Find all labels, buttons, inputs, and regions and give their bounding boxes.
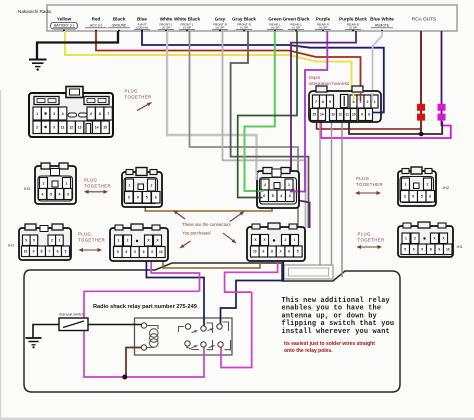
svg-text:10: 10: [159, 250, 163, 254]
svg-text:GROUND: GROUND: [112, 24, 127, 28]
svg-text:5: 5: [65, 249, 67, 253]
svg-text:11: 11: [346, 113, 350, 117]
svg-text:7: 7: [107, 112, 109, 116]
svg-text:Green Black: Green Black: [283, 17, 310, 22]
svg-text:2: 2: [285, 238, 287, 242]
svg-text:IH1: IH1: [457, 244, 464, 249]
svg-text:2: 2: [151, 183, 153, 187]
svg-text:TOGETHER: TOGETHER: [84, 184, 111, 189]
svg-text:5: 5: [146, 196, 148, 200]
svg-text:3: 3: [67, 192, 69, 196]
svg-text:You purchased: You purchased: [182, 231, 211, 236]
svg-text:(+) SP: (+) SP: [271, 26, 280, 30]
svg-text:3: 3: [404, 195, 406, 199]
svg-text:12: 12: [338, 113, 342, 117]
svg-text:onto the relay poles.: onto the relay poles.: [284, 348, 333, 354]
svg-text:PLUG: PLUG: [356, 176, 370, 181]
svg-text:10: 10: [24, 249, 28, 253]
svg-text:IH2: IH2: [24, 186, 31, 191]
svg-text:REMOTE: REMOTE: [375, 24, 390, 28]
svg-text:9: 9: [438, 247, 440, 251]
svg-text:5: 5: [421, 195, 423, 199]
svg-text:(-) SP: (-) SP: [349, 26, 357, 30]
svg-text:Green: Green: [268, 17, 281, 22]
svg-text:3: 3: [128, 196, 130, 200]
svg-text:White Black: White Black: [174, 17, 200, 22]
svg-text:14: 14: [320, 113, 324, 117]
svg-text:8: 8: [99, 112, 101, 116]
svg-text:8: 8: [368, 113, 370, 117]
svg-text:6: 6: [126, 250, 128, 254]
svg-text:Blue: Blue: [137, 17, 147, 22]
svg-text:15: 15: [312, 113, 316, 117]
svg-text:RCA OUTS: RCA OUTS: [412, 17, 437, 23]
svg-text:4: 4: [59, 192, 61, 196]
svg-text:Red: Red: [92, 17, 101, 22]
svg-text:5: 5: [404, 247, 406, 251]
svg-text:1: 1: [129, 183, 131, 187]
svg-text:10: 10: [352, 113, 356, 117]
svg-text:PLUG: PLUG: [84, 178, 98, 183]
svg-text:1: 1: [294, 238, 296, 242]
svg-text:PLUG: PLUG: [78, 232, 92, 237]
svg-text:6: 6: [429, 195, 431, 199]
svg-text:5: 5: [329, 100, 331, 104]
svg-text:6: 6: [42, 192, 44, 196]
svg-text:5: 5: [117, 250, 119, 254]
svg-text:9: 9: [33, 249, 35, 253]
svg-text:10: 10: [253, 250, 257, 254]
svg-text:PLUG: PLUG: [125, 89, 139, 94]
svg-text:2: 2: [36, 126, 38, 130]
svg-text:1: 1: [288, 183, 290, 187]
svg-text:IH2: IH2: [443, 185, 450, 190]
svg-text:TOGETHER: TOGETHER: [125, 95, 152, 100]
svg-text:(+) SP: (+) SP: [162, 26, 171, 30]
svg-text:8: 8: [41, 249, 43, 253]
svg-text:(+) SP: (+) SP: [216, 26, 225, 30]
svg-text:ACC (+): ACC (+): [90, 24, 102, 28]
svg-text:Purple: Purple: [316, 17, 331, 22]
svg-text:1: 1: [66, 181, 68, 185]
svg-text:13: 13: [331, 113, 335, 117]
svg-text:integration harness: integration harness: [309, 81, 350, 87]
svg-text:2: 2: [43, 181, 45, 185]
svg-text:Yellow: Yellow: [57, 17, 72, 22]
svg-text:2: 2: [367, 100, 369, 104]
svg-text:3: 3: [53, 112, 55, 116]
svg-text:6: 6: [288, 250, 290, 254]
svg-text:13: 13: [78, 126, 82, 130]
svg-text:9: 9: [361, 113, 363, 117]
svg-text:BATTERY (+): BATTERY (+): [54, 24, 74, 28]
svg-text:1: 1: [36, 112, 38, 116]
svg-text:4: 4: [280, 194, 282, 198]
svg-text:manual switch: manual switch: [59, 311, 84, 316]
svg-text:5: 5: [297, 250, 299, 254]
svg-text:6: 6: [322, 100, 324, 104]
svg-text:Black: Black: [113, 17, 126, 22]
svg-text:IH1: IH1: [8, 243, 15, 248]
svg-text:8: 8: [143, 250, 145, 254]
svg-text:TOGETHER: TOGETHER: [78, 238, 105, 243]
svg-text:TOGETHER: TOGETHER: [356, 182, 383, 187]
svg-text:15: 15: [103, 126, 107, 130]
svg-text:6: 6: [155, 196, 157, 200]
svg-text:Gray: Gray: [215, 17, 226, 22]
svg-text:7: 7: [49, 249, 51, 253]
svg-text:7: 7: [315, 100, 317, 104]
svg-text:3: 3: [289, 194, 291, 198]
svg-text:1: 1: [58, 239, 60, 243]
svg-text:10: 10: [446, 247, 450, 251]
svg-text:14: 14: [95, 126, 99, 130]
svg-text:PLUG: PLUG: [358, 232, 372, 237]
svg-text:6: 6: [263, 194, 265, 198]
svg-text:1: 1: [405, 182, 407, 186]
svg-text:White: White: [160, 17, 173, 22]
svg-text:TOGETHER: TOGETHER: [358, 238, 385, 243]
svg-text:2: 2: [127, 239, 129, 243]
svg-text:6: 6: [90, 112, 92, 116]
svg-text:8: 8: [271, 250, 273, 254]
svg-text:2: 2: [264, 183, 266, 187]
svg-text:(220mA): (220mA): [136, 26, 148, 30]
svg-text:15pin: 15pin: [309, 75, 321, 81]
svg-text:1: 1: [405, 237, 407, 241]
svg-text:install wherever you want: install wherever you want: [282, 328, 390, 336]
svg-text:2: 2: [414, 237, 416, 241]
svg-text:(+) SP: (+) SP: [319, 26, 328, 30]
svg-text:4: 4: [62, 112, 64, 116]
svg-text:5: 5: [50, 192, 52, 196]
svg-text:12: 12: [69, 126, 73, 130]
svg-text:Purple Black: Purple Black: [339, 17, 367, 22]
svg-text:(-) SP: (-) SP: [240, 26, 248, 30]
svg-text:2: 2: [51, 239, 53, 243]
svg-text:1: 1: [374, 100, 376, 104]
svg-text:5: 5: [272, 194, 274, 198]
svg-text:Nakanichi Radio: Nakanichi Radio: [18, 9, 52, 14]
svg-text:2: 2: [427, 182, 429, 186]
svg-text:(-) SP: (-) SP: [292, 26, 300, 30]
svg-text:6: 6: [413, 247, 415, 251]
svg-text:its easiest just to solder wir: its easiest just to solder wires straigh…: [284, 341, 375, 347]
svg-text:11: 11: [61, 126, 65, 130]
svg-text:6: 6: [57, 249, 59, 253]
svg-text:9: 9: [151, 250, 153, 254]
svg-text:8: 8: [430, 247, 432, 251]
svg-text:Blue White: Blue White: [370, 17, 394, 22]
svg-text:(-) SP: (-) SP: [183, 26, 191, 30]
svg-text:1: 1: [118, 239, 120, 243]
svg-text:9: 9: [263, 250, 265, 254]
svg-text:Radio shack relay part number: Radio shack relay part number 275-249: [93, 304, 197, 310]
svg-text:Gray Black: Gray Black: [232, 17, 256, 22]
svg-text:These are the connectors: These are the connectors: [182, 222, 231, 227]
